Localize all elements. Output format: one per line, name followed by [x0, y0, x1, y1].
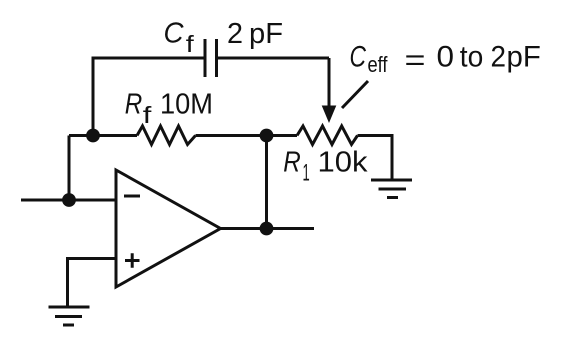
node dot: output	[260, 222, 274, 236]
svg-text:eff: eff	[368, 52, 389, 77]
resistor Rf zigzag	[137, 126, 196, 145]
label C_f	[164, 18, 195, 57]
label R_f 10M	[125, 89, 213, 128]
node dot: Rf left / cap junction	[86, 129, 100, 143]
wire: feedback vertical from output node	[265, 136, 268, 229]
svg-text:2: 2	[227, 18, 243, 50]
svg-text:f: f	[143, 102, 152, 128]
arrowhead onto R1 wiper	[322, 106, 337, 124]
wire: inverting input line	[21, 199, 116, 202]
capacitor C_f	[205, 39, 217, 77]
wire: top feedback left segment	[93, 58, 205, 136]
svg-text:2: 2	[491, 41, 507, 74]
svg-text:C: C	[164, 18, 184, 50]
svg-text:f: f	[186, 31, 195, 57]
svg-text:R: R	[125, 89, 143, 121]
op-amp plus sign	[125, 253, 140, 267]
node dot: Rf/R1 junction	[260, 129, 274, 143]
label Ceff = 0 to 2pF	[350, 41, 541, 78]
svg-text:to: to	[460, 41, 484, 74]
ground (left, at + input)	[49, 307, 90, 325]
resistor R1 zigzag (trimmer)	[297, 126, 358, 145]
svg-text:C: C	[350, 41, 367, 74]
svg-text:R: R	[283, 147, 301, 179]
svg-text:pF: pF	[507, 41, 541, 74]
leader line from Ceff label	[342, 81, 368, 108]
op-amp U1	[116, 170, 221, 287]
svg-text:0: 0	[437, 41, 455, 74]
wire: between Rf and R1	[196, 134, 298, 137]
wire: Ceff arrow vertical	[328, 58, 331, 108]
node dot: inverting input	[62, 193, 76, 207]
svg-text:pF: pF	[249, 18, 283, 50]
wire: top feedback right segment	[217, 57, 330, 60]
label 2pF	[227, 18, 283, 50]
svg-text:10k: 10k	[318, 147, 369, 179]
op-amp minus sign	[124, 195, 140, 198]
wire: non-inverting input to ground	[68, 259, 117, 308]
svg-text:10M: 10M	[160, 89, 213, 121]
label R_1 10k	[283, 147, 368, 187]
svg-text:1: 1	[303, 160, 310, 187]
wire: left vertical down to inverting input	[68, 136, 71, 201]
ground (right, under R1)	[371, 180, 412, 198]
wire: output	[221, 227, 315, 230]
svg-text:=: =	[405, 44, 426, 77]
wire: main horizontal node line (left corner to R1)	[69, 134, 137, 137]
wire: R1 right to ground corner	[358, 136, 393, 181]
